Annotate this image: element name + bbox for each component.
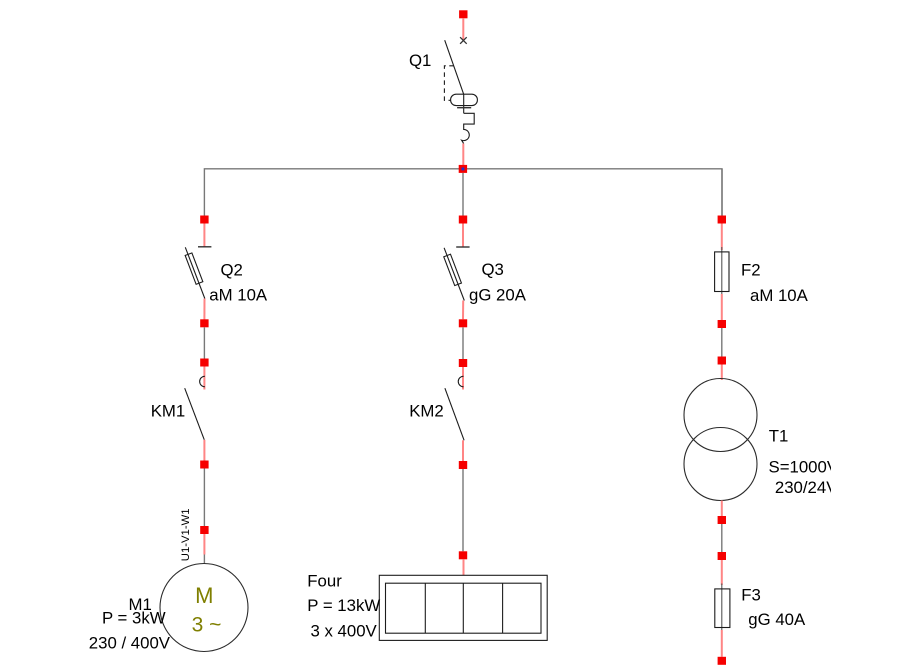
wire Q3 to node <box>462 301 464 320</box>
node load terminal <box>718 657 726 665</box>
wire bus to Q3 node <box>462 173 464 216</box>
wire node to motor <box>203 534 205 555</box>
contactor KM1 blade <box>185 388 205 440</box>
fuse F3 lead <box>721 584 723 633</box>
transformer T1 secondary circle <box>684 428 757 501</box>
node motor terminal <box>200 526 208 534</box>
oven divider 3 <box>502 583 504 633</box>
oven divider 1 <box>424 583 426 633</box>
svg-text:KM1: KM1 <box>151 401 186 420</box>
wire Q2 to node <box>203 299 205 320</box>
wire node into KM1 <box>203 367 205 390</box>
wire node into KM2 <box>462 367 464 390</box>
fuse-switch Q3 blade <box>444 248 464 301</box>
wire T1 to F3 <box>721 524 723 552</box>
oven outer box <box>379 575 547 640</box>
wire F2 to node <box>721 294 723 320</box>
Q1 thermal release element <box>462 113 475 143</box>
Q1 center conductor <box>463 94 465 113</box>
wire node to F2 <box>721 224 723 251</box>
node T1 top <box>718 357 726 365</box>
node F2 top <box>718 216 726 224</box>
node Q2 bottom <box>200 319 208 327</box>
svg-text:gG 40A: gG 40A <box>748 610 806 629</box>
fuse F2 lead <box>721 247 723 296</box>
svg-text:gG 20A: gG 20A <box>469 285 527 304</box>
wire bus to F2 node <box>721 169 723 216</box>
fuse-switch Q2 fuse body <box>185 253 203 284</box>
node Q2 top <box>200 216 208 224</box>
fuse-switch Q2 blade <box>185 247 205 298</box>
wire node to Q3 <box>462 224 464 247</box>
oven divider 2 <box>462 583 464 633</box>
node Q3 bottom <box>459 319 467 327</box>
wire Q1 to bus <box>462 144 464 166</box>
svg-text:3 x 400V: 3 x 400V <box>311 621 378 640</box>
svg-text:P = 3kW: P = 3kW <box>102 609 166 628</box>
svg-text:U1-V1-W1: U1-V1-W1 <box>180 508 192 561</box>
wire F2 to T1 <box>721 328 723 357</box>
Q1 terminal tick <box>457 107 471 109</box>
node KM2 top <box>459 359 467 367</box>
svg-text:230 / 400V: 230 / 400V <box>89 634 171 653</box>
wire node to oven <box>463 559 465 575</box>
node F2 bottom <box>718 320 726 328</box>
wire node to F3 <box>721 560 723 585</box>
oven inner box <box>386 583 542 633</box>
wire node to T1 <box>721 365 723 381</box>
transformer T1 primary circle <box>684 379 757 452</box>
Q1 mechanism dashed box <box>444 66 453 101</box>
contactor KM2 arc <box>458 376 463 387</box>
wire Q2 to KM1 <box>203 327 205 358</box>
svg-text:Four: Four <box>307 571 342 590</box>
node oven terminal <box>459 551 467 559</box>
wire KM1 to node <box>203 440 205 461</box>
svg-text:KM2: KM2 <box>409 401 444 420</box>
node Q3 top <box>459 216 467 224</box>
wire Q3 to KM2 <box>462 327 464 359</box>
node KM1 bottom <box>200 461 208 469</box>
svg-text:S=1000VA: S=1000VA <box>769 458 849 477</box>
wire KM1 to motor node <box>203 469 205 527</box>
fuse F2 body <box>715 252 729 292</box>
Q1 fixed contact X <box>460 37 467 44</box>
svg-text:aM 10A: aM 10A <box>750 286 809 305</box>
node supply terminal <box>459 10 467 18</box>
wire supply to Q1 <box>462 18 464 40</box>
node F3 top <box>718 552 726 560</box>
wire T1 to node <box>721 501 723 517</box>
svg-text:3 ~: 3 ~ <box>192 613 222 636</box>
junction node bus <box>459 165 467 173</box>
contactor KM2 blade <box>445 388 464 440</box>
Q1 magnetic release ellipse <box>451 94 478 105</box>
svg-text:F3: F3 <box>741 586 761 605</box>
fuse-switch Q3 fuse body <box>444 254 462 285</box>
svg-text:T1: T1 <box>769 426 789 445</box>
svg-text:Q1: Q1 <box>409 51 431 70</box>
wire motor lead <box>203 555 205 564</box>
node T1 bottom <box>718 516 726 524</box>
svg-text:aM 10A: aM 10A <box>209 285 268 304</box>
Q2 fixed contact tick <box>198 246 211 248</box>
node KM2 bottom <box>459 461 467 469</box>
contactor KM1 arc <box>200 376 205 387</box>
svg-text:P = 13kW: P = 13kW <box>307 596 380 615</box>
bus wire <box>204 169 722 216</box>
fuse F3 body <box>715 589 730 628</box>
wire KM2 to oven node <box>462 469 464 551</box>
svg-text:Q3: Q3 <box>482 260 504 279</box>
wire node to Q2 <box>203 224 205 247</box>
wire F3 to node <box>721 630 723 657</box>
svg-text:230/24V: 230/24V <box>775 478 838 497</box>
svg-text:Q2: Q2 <box>221 260 243 279</box>
node KM1 top <box>200 359 208 367</box>
svg-text:F2: F2 <box>741 260 761 279</box>
wire KM2 to node <box>462 440 464 461</box>
Q3 fixed contact tick <box>456 246 469 248</box>
circuit breaker Q1 blade <box>445 40 464 94</box>
svg-text:M: M <box>195 583 213 608</box>
motor M1 circle <box>160 564 248 652</box>
